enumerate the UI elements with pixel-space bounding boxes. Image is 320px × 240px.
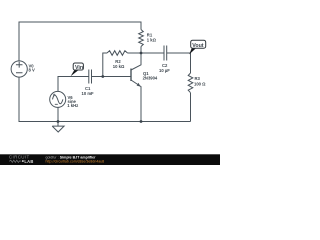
svg-text:10 µF: 10 µF [159,68,170,73]
svg-text:1 kHz: 1 kHz [67,103,78,108]
svg-text:100 Ω: 100 Ω [194,81,206,86]
svg-text:Vin: Vin [75,65,83,71]
svg-text:10 kΩ: 10 kΩ [113,64,125,69]
svg-text:8 V: 8 V [29,67,35,72]
svg-text:http://circuitlab.com/c8se/3e8: http://circuitlab.com/c8se/3e8dn4au8 [46,160,105,164]
svg-text:1 kΩ: 1 kΩ [147,38,157,43]
svg-text:2N3904: 2N3904 [143,76,158,81]
svg-text:Vout: Vout [192,43,204,49]
svg-text:LAB: LAB [24,159,33,164]
svg-text:10 mF: 10 mF [82,91,95,96]
